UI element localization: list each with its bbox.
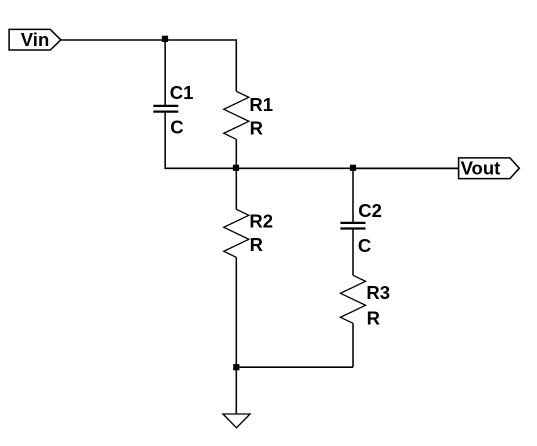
wire bottom rail to ground xyxy=(235,367,237,414)
svg-text:C: C xyxy=(358,235,371,256)
net tag Vin xyxy=(9,29,61,50)
svg-text:R: R xyxy=(250,234,263,255)
wire bottom rail xyxy=(236,366,353,368)
wire middle rail (node Vout net) xyxy=(164,167,458,169)
wire R3 bottom lead to bottom rail xyxy=(352,323,354,367)
wire C1 bottom plate to middle rail xyxy=(164,112,166,169)
capacitor C2 xyxy=(340,223,365,229)
svg-text:C2: C2 xyxy=(358,200,382,221)
wire middle rail to Vout tag xyxy=(353,167,459,169)
wire Vin tip to top-right corner (top rail) xyxy=(61,40,237,91)
capacitor C1 xyxy=(153,106,178,112)
svg-text:R: R xyxy=(367,308,380,329)
svg-text:R3: R3 xyxy=(366,282,390,303)
node junction C2/middle rail xyxy=(350,165,356,171)
wire middle rail to R2 top lead xyxy=(235,168,237,209)
wire R1 bottom lead to middle rail xyxy=(235,139,237,168)
svg-text:Vout: Vout xyxy=(461,157,501,178)
wire top rail to C1 top plate xyxy=(164,40,166,106)
svg-text:R2: R2 xyxy=(249,211,273,232)
svg-text:R1: R1 xyxy=(249,94,273,115)
wire C2 bottom plate to R3 top lead xyxy=(352,229,354,276)
resistor R2 xyxy=(224,209,249,257)
svg-text:C: C xyxy=(170,117,183,138)
node junction R1/R2/middle rail xyxy=(233,165,239,171)
wire middle rail to C2 top plate xyxy=(352,168,354,223)
net tag Vout xyxy=(459,157,520,178)
svg-text:R: R xyxy=(250,118,263,139)
wire R2 bottom lead to bottom rail xyxy=(235,257,237,367)
resistor R3 xyxy=(341,275,366,323)
svg-text:C1: C1 xyxy=(170,82,194,103)
node junction Vin/C1/R1 xyxy=(162,36,168,42)
resistor R1 xyxy=(224,91,249,139)
svg-text:Vin: Vin xyxy=(21,29,49,50)
ground xyxy=(223,414,250,428)
node junction R2/ground/bottom rail xyxy=(233,364,239,370)
